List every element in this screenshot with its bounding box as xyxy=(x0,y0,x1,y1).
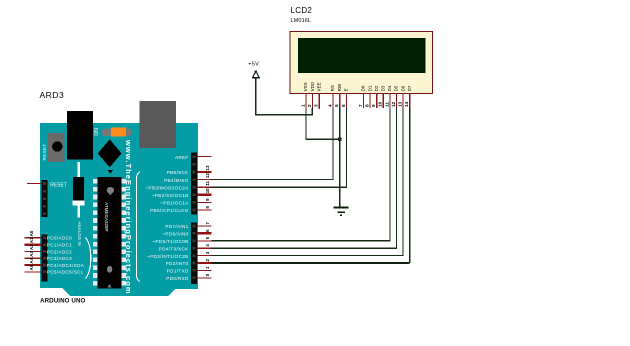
svg-text:8: 8 xyxy=(205,206,210,209)
label pin 5 xyxy=(334,104,339,107)
wire E to pin11 xyxy=(212,108,347,187)
label PB0/ICP1/CLKO xyxy=(150,208,189,213)
svg-text:5: 5 xyxy=(205,236,210,239)
svg-text:14: 14 xyxy=(404,101,409,107)
svg-text:9: 9 xyxy=(205,198,210,201)
svg-text:LCD2: LCD2 xyxy=(291,6,313,15)
svg-text:A1: A1 xyxy=(29,237,34,243)
svg-text:~PB1/OC1A: ~PB1/OC1A xyxy=(160,201,189,206)
label PC0/ADC0 xyxy=(47,236,72,241)
label A2 xyxy=(29,244,34,250)
svg-text:PC0/ADC0: PC0/ADC0 xyxy=(47,236,72,241)
ground xyxy=(333,207,348,215)
svg-text:6: 6 xyxy=(205,229,210,232)
svg-text:~PB2/SS/OC1B: ~PB2/SS/OC1B xyxy=(152,193,189,198)
label PD1/TXD xyxy=(167,269,189,274)
svg-text:11: 11 xyxy=(384,102,389,107)
analog header xyxy=(41,235,47,282)
label 7 xyxy=(205,222,210,225)
label D5 xyxy=(394,85,399,91)
svg-text:4: 4 xyxy=(205,244,210,247)
svg-text:3: 3 xyxy=(205,251,210,254)
svg-text:PD4/T0/XCK: PD4/T0/XCK xyxy=(159,246,189,251)
wire RW to ground xyxy=(339,108,341,207)
label pin 14 xyxy=(404,101,409,107)
label RESET header xyxy=(50,182,67,188)
svg-text:D3: D3 xyxy=(381,85,386,91)
LCD pin D6 stub xyxy=(402,94,404,108)
label PD5/T1/OC0B xyxy=(152,239,188,244)
label PD2/INT0 xyxy=(166,261,189,266)
label pin 13 xyxy=(398,101,403,107)
wire A1 stub xyxy=(25,243,42,245)
label 1 xyxy=(205,266,210,269)
svg-text:RW: RW xyxy=(337,83,342,91)
label pin 4 xyxy=(327,104,332,107)
wire pin7 stub xyxy=(197,225,211,227)
label +5V xyxy=(248,61,259,67)
wire pin10 stub xyxy=(197,194,211,196)
label 6 xyxy=(205,229,210,232)
svg-text:~PD6/AIN0: ~PD6/AIN0 xyxy=(162,232,188,237)
svg-text:PC1/ADC1: PC1/ADC1 xyxy=(47,243,72,248)
svg-text:PB5/SCK: PB5/SCK xyxy=(167,170,189,175)
svg-text:0: 0 xyxy=(205,273,210,276)
label LM016L xyxy=(291,18,312,24)
wire pin2 stub xyxy=(197,262,211,264)
label 9 xyxy=(205,198,210,201)
svg-text:PD0/RXD: PD0/RXD xyxy=(166,276,189,281)
label 0 xyxy=(205,273,210,276)
wire RS to pin12 xyxy=(212,108,334,180)
wire pin13 stub xyxy=(197,171,211,173)
wire A4 stub xyxy=(25,264,42,266)
svg-text:RESET: RESET xyxy=(42,143,47,160)
svg-text:10: 10 xyxy=(378,101,383,107)
wire pin11 stub xyxy=(197,186,211,188)
label D0 xyxy=(361,85,366,91)
svg-text:D4: D4 xyxy=(387,85,392,91)
svg-text:D6: D6 xyxy=(400,85,405,91)
label PC5/ADC5/SCL xyxy=(47,270,84,275)
label RS xyxy=(330,85,335,91)
label PC2/ADC2 xyxy=(47,249,72,254)
wire +5V to VDD xyxy=(256,78,312,115)
svg-text:+5V: +5V xyxy=(248,61,259,67)
label pin 6 xyxy=(341,104,346,107)
label pin 10 xyxy=(378,101,383,107)
label pin 8 xyxy=(365,104,370,107)
label pin 12 xyxy=(391,101,396,107)
svg-text:2: 2 xyxy=(307,104,312,107)
label D2 xyxy=(374,85,379,91)
svg-text:A5: A5 xyxy=(29,264,34,270)
svg-text:PC2/ADC2: PC2/ADC2 xyxy=(47,249,72,254)
diamond tip mark xyxy=(107,170,113,174)
LCD pin VDD stub xyxy=(312,94,314,108)
left power header xyxy=(41,180,47,217)
label 8 xyxy=(205,206,210,209)
svg-text:D1: D1 xyxy=(367,85,372,91)
label ARDUINO UNO xyxy=(40,298,86,305)
svg-text:D2: D2 xyxy=(374,85,379,91)
wire pin1 stub xyxy=(197,269,211,271)
svg-text:A4: A4 xyxy=(29,257,34,263)
svg-text:D0: D0 xyxy=(361,85,366,91)
wire AREF stub xyxy=(197,156,211,158)
label 3 xyxy=(205,251,210,254)
svg-text:3: 3 xyxy=(314,104,319,107)
label A5 xyxy=(29,264,34,270)
svg-text:E: E xyxy=(344,88,349,91)
LCD screen xyxy=(298,38,426,73)
wire pin4 stub xyxy=(197,247,211,249)
svg-text:VEE: VEE xyxy=(316,82,321,91)
LCD pin VEE stub xyxy=(318,94,320,109)
diamond component xyxy=(98,139,122,167)
label PD7/AIN1 xyxy=(165,224,188,229)
wire A2 stub xyxy=(25,250,42,252)
LCD pin D5 stub xyxy=(396,94,398,108)
svg-text:PD7/AIN1: PD7/AIN1 xyxy=(165,224,188,229)
analog in brace xyxy=(86,238,91,279)
svg-text:LM016L: LM016L xyxy=(291,18,312,24)
label PC4/ADC4/SDA xyxy=(47,263,85,268)
svg-text:13: 13 xyxy=(205,165,210,171)
label VSS xyxy=(303,82,308,91)
label PD0/RXD xyxy=(166,276,189,281)
silkscreen www.TheEngineeringProjects.com xyxy=(124,139,133,295)
wire pin9 stub xyxy=(197,201,211,203)
svg-text:9: 9 xyxy=(371,104,376,107)
svg-text:1: 1 xyxy=(300,104,305,107)
power jack xyxy=(67,111,93,160)
wire pin5 stub xyxy=(197,240,211,242)
svg-text:ARDUINO UNO: ARDUINO UNO xyxy=(40,298,86,305)
label E xyxy=(344,88,349,91)
svg-text:PC3/ADC3: PC3/ADC3 xyxy=(47,256,72,261)
label A1 xyxy=(29,237,34,243)
svg-text:ARD3: ARD3 xyxy=(40,90,65,100)
label D6 xyxy=(400,85,405,91)
label PC1/ADC1 xyxy=(47,243,72,248)
label A4 xyxy=(29,257,34,263)
svg-text:8: 8 xyxy=(365,104,370,107)
LCD pin D4 stub xyxy=(389,94,391,108)
label PB4/MISO xyxy=(164,178,189,183)
svg-text:PC4/ADC4/SDA: PC4/ADC4/SDA xyxy=(47,263,85,268)
svg-text:11: 11 xyxy=(205,180,210,185)
label D4 xyxy=(387,85,392,91)
svg-text:PC5/ADC5/SCL: PC5/ADC5/SCL xyxy=(47,270,84,275)
reset button S1 xyxy=(48,133,65,162)
label PD6/AIN0 xyxy=(162,232,188,237)
wire D6 to pin3 xyxy=(212,108,404,256)
label ANALOG IN xyxy=(77,222,82,247)
label pin 1 xyxy=(300,104,305,107)
wire D7 to pin2 xyxy=(212,108,410,263)
svg-text:PD1/TXD: PD1/TXD xyxy=(167,269,189,274)
right digital header upper xyxy=(191,153,197,215)
LCD pin D7 stub xyxy=(409,94,411,108)
LCD pin D1 stub xyxy=(369,94,371,108)
label VEE xyxy=(316,82,321,91)
right digital header lower xyxy=(191,222,197,283)
label 12 xyxy=(205,173,210,179)
LCD pin D2 stub xyxy=(376,94,378,108)
label D3 xyxy=(381,85,386,91)
svg-text:10: 10 xyxy=(205,188,210,194)
usb connector xyxy=(140,101,177,148)
wire reset stub xyxy=(27,183,41,185)
svg-text:13: 13 xyxy=(398,101,403,107)
LCD pin RW stub xyxy=(339,94,341,108)
LCD pin E stub xyxy=(345,94,347,108)
svg-text:2: 2 xyxy=(205,259,210,262)
wire pin0 stub xyxy=(197,277,211,279)
svg-text:ATMEGA328P: ATMEGA328P xyxy=(104,202,109,231)
label RW xyxy=(337,83,342,91)
LCD pin VSS stub xyxy=(305,94,307,108)
svg-text:7: 7 xyxy=(358,104,363,107)
label PD3/INT1/OC2B xyxy=(147,254,189,259)
reset button silkscreen xyxy=(42,143,47,160)
label 2 xyxy=(205,259,210,262)
svg-text:4: 4 xyxy=(327,104,332,107)
svg-text:~PD3/INT1/OC2B: ~PD3/INT1/OC2B xyxy=(147,254,189,259)
svg-text:5: 5 xyxy=(334,104,339,107)
wire pin3 stub xyxy=(197,255,211,257)
svg-text:A2: A2 xyxy=(29,244,34,250)
wire A5 stub xyxy=(25,271,42,273)
LCD pin D3 stub xyxy=(382,94,384,108)
LCD LCD2 body xyxy=(290,32,433,94)
label pin 2 xyxy=(307,104,312,107)
svg-text:~PB3/MOSI/OC2A: ~PB3/MOSI/OC2A xyxy=(146,185,190,190)
wire pin12 stub xyxy=(197,179,211,181)
label 5 xyxy=(205,236,210,239)
label 4 xyxy=(205,244,210,247)
label PB5/SCK xyxy=(167,170,189,175)
power LED ON xyxy=(102,128,133,137)
svg-text:AREF: AREF xyxy=(175,155,189,160)
crystal X1 xyxy=(72,162,84,218)
label D1 xyxy=(367,85,372,91)
microcontroller U1 ATMEGA328P xyxy=(93,177,126,289)
svg-text:RS: RS xyxy=(330,85,335,91)
svg-text:PB4/MISO: PB4/MISO xyxy=(164,178,189,183)
label PD4/T0/XCK xyxy=(159,246,189,251)
wire D5 to pin4 xyxy=(212,108,397,248)
svg-text:ANALOG IN: ANALOG IN xyxy=(77,222,82,247)
label 13 xyxy=(205,165,210,171)
power +5V symbol xyxy=(252,71,260,78)
svg-text:12: 12 xyxy=(205,173,210,179)
label 11 xyxy=(205,180,210,185)
wire A0 stub xyxy=(25,237,42,239)
svg-text:~PD5/T1/OC0B: ~PD5/T1/OC0B xyxy=(152,239,188,244)
label PB3/MOSI/OC2A xyxy=(146,185,190,190)
svg-text:www.TheEngineeringProjects.com: www.TheEngineeringProjects.com xyxy=(124,139,133,295)
label PC3/ADC3 xyxy=(47,256,72,261)
label 10 xyxy=(205,188,210,194)
svg-text:7: 7 xyxy=(205,222,210,225)
svg-text:PD2/INT0: PD2/INT0 xyxy=(166,261,189,266)
svg-text:PB0/ICP1/CLKO: PB0/ICP1/CLKO xyxy=(150,208,189,213)
svg-text:VDD: VDD xyxy=(310,81,315,91)
svg-text:RESET: RESET xyxy=(50,182,67,188)
label D7 xyxy=(407,85,412,91)
svg-text:1: 1 xyxy=(205,266,210,269)
label ARD3 xyxy=(40,90,65,100)
label PB2/SS/OC1B xyxy=(152,193,189,198)
LCD pin D0 stub xyxy=(363,94,365,108)
svg-text:D5: D5 xyxy=(394,85,399,91)
wire VSS to ground net xyxy=(306,108,340,139)
wire D4 to pin5 xyxy=(212,108,390,241)
label A3 xyxy=(29,251,34,257)
junction VSS-RW xyxy=(338,137,342,141)
arduino board ARD3 xyxy=(40,123,198,296)
svg-text:ON: ON xyxy=(94,128,100,136)
svg-text:A0: A0 xyxy=(29,230,34,236)
label LCD2 xyxy=(291,6,313,15)
svg-text:VSS: VSS xyxy=(303,82,308,91)
wire pin8 stub xyxy=(197,209,211,211)
svg-text:D7: D7 xyxy=(407,85,412,91)
label pin 11 xyxy=(384,102,389,107)
label AREF xyxy=(175,155,189,160)
svg-text:6: 6 xyxy=(341,104,346,107)
label PB1/OC1A xyxy=(160,201,189,206)
svg-text:A3: A3 xyxy=(29,251,34,257)
label A0 xyxy=(29,230,34,236)
digital pins brace xyxy=(136,172,139,282)
label pin 3 xyxy=(314,104,319,107)
label ON xyxy=(94,128,100,136)
wire pin6 stub xyxy=(197,232,211,234)
LCD pin RS stub xyxy=(332,94,334,108)
label pin 9 xyxy=(371,104,376,107)
label pin 7 xyxy=(358,104,363,107)
wire A3 stub xyxy=(25,257,42,259)
svg-text:12: 12 xyxy=(391,101,396,107)
label VDD xyxy=(310,81,315,91)
